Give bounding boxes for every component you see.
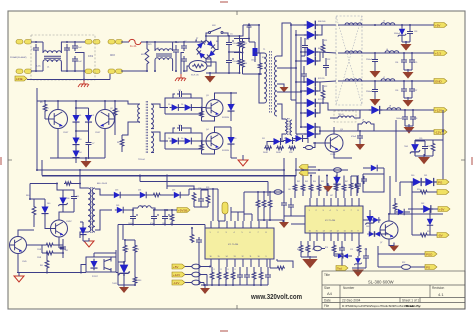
svg-text:F12C20: F12C20 xyxy=(318,99,324,101)
diode DB2 to Q30 xyxy=(363,217,381,223)
svg-text:C7: C7 xyxy=(92,143,94,145)
wire fuse to top node xyxy=(141,41,196,43)
svg-text:L7: L7 xyxy=(383,77,385,79)
wire sec bus1 xyxy=(291,23,296,100)
resistor R24 xyxy=(148,193,161,197)
wire opto right xyxy=(116,250,118,273)
capacitor CY1 xyxy=(72,43,78,51)
wire beads drops xyxy=(204,275,207,287)
wire T2 to upper diodes xyxy=(154,104,168,108)
capacitor CC3 xyxy=(363,248,369,268)
wire bus B xyxy=(42,158,296,176)
svg-text:220VAC(50-60HZ): 220VAC(50-60HZ) xyxy=(10,56,27,59)
svg-text:GND: GND xyxy=(435,79,443,83)
wire row pson2 xyxy=(378,254,425,267)
svg-text:D:\PS02\GproJVPS02\GproJ79o3cI: D:\PS02\GproJVPS02\GproJ79o3cI\D3ProtSL3… xyxy=(342,304,415,308)
capacitor CY2 xyxy=(72,41,78,72)
svg-text:R62: R62 xyxy=(297,181,300,183)
text CX1 label xyxy=(88,54,94,58)
inductor L1 common-mode choke xyxy=(43,42,61,71)
wire out row3 xyxy=(0,0,1,1)
ground brown GO8 xyxy=(415,154,433,164)
svg-text:TL431: TL431 xyxy=(112,283,117,285)
svg-text:F12C20: F12C20 xyxy=(318,78,324,80)
resistor RS1 xyxy=(321,39,325,58)
svg-text:R46: R46 xyxy=(170,223,173,225)
svg-text:R73: R73 xyxy=(312,249,315,251)
resistor R12 xyxy=(237,40,244,54)
ground brown GO1 xyxy=(401,41,412,51)
wire Q2 bottom xyxy=(104,129,106,159)
svg-text:R50: R50 xyxy=(417,189,420,191)
svg-text:13: 13 xyxy=(234,256,236,258)
text diode row labels xyxy=(263,152,294,154)
rectifier dashed box xyxy=(336,16,362,105)
svg-text:Q7: Q7 xyxy=(380,242,382,244)
transistor Q2 half-bridge xyxy=(96,110,115,129)
text S2055 labels xyxy=(222,117,229,152)
svg-text:D13: D13 xyxy=(297,138,300,140)
wire T4 top xyxy=(79,169,88,188)
diode D5 xyxy=(170,104,181,111)
resistor R5 xyxy=(40,100,47,112)
svg-text:C42: C42 xyxy=(65,250,68,252)
svg-text:C35: C35 xyxy=(414,62,417,64)
diode DS4 rectifier xyxy=(295,52,320,65)
svg-text:+5V: +5V xyxy=(439,207,444,211)
transformer T2 sec lower xyxy=(151,132,154,153)
transistor Q3 drive xyxy=(206,100,223,117)
jumper beads xyxy=(185,264,210,285)
diode DS6 rectifier xyxy=(300,82,320,95)
wire Q4 emitter xyxy=(202,150,215,155)
svg-text:D9: D9 xyxy=(181,138,183,140)
svg-text:D8: D8 xyxy=(168,138,170,140)
svg-text:2200uF: 2200uF xyxy=(366,91,373,93)
capacitor C5 bulk xyxy=(226,36,239,48)
wire caps mid link xyxy=(228,51,241,53)
svg-text:D5: D5 xyxy=(168,104,170,106)
diode D11 xyxy=(267,138,283,146)
wire diode pair top xyxy=(75,100,89,113)
wire T1 pri top xyxy=(258,24,264,53)
svg-text:S2055N: S2055N xyxy=(222,150,229,152)
svg-text:C33: C33 xyxy=(414,31,417,33)
text output cap labels xyxy=(351,31,430,148)
resistor R30 xyxy=(133,258,137,285)
resistor R16 xyxy=(288,146,296,150)
wire line rail xyxy=(27,74,110,81)
resistor R23 xyxy=(42,252,49,274)
svg-text:L9: L9 xyxy=(362,120,364,122)
wire CN2 to fuse xyxy=(121,41,129,43)
svg-text:D12: D12 xyxy=(284,138,287,140)
svg-text:SCK 05: SCK 05 xyxy=(191,75,199,77)
svg-text:C28: C28 xyxy=(198,188,201,190)
wire T3 conn xyxy=(282,116,285,141)
diode D12 xyxy=(282,137,295,144)
inductor LF3 xyxy=(381,79,395,81)
wire IC1 left pin xyxy=(209,266,211,268)
IC U2 pins bottom xyxy=(211,259,267,267)
svg-text:D25: D25 xyxy=(172,190,175,192)
varistor RV1 xyxy=(141,41,149,72)
resistor RA4 xyxy=(231,267,235,285)
wire HB box bottom xyxy=(50,157,105,159)
wire bus C xyxy=(139,175,268,196)
ground brown G31 xyxy=(118,271,136,293)
svg-text:IC2 TL494: IC2 TL494 xyxy=(325,220,336,222)
resistor R3 bleed xyxy=(238,36,242,52)
inductor LO3 xyxy=(338,79,434,81)
text output labels xyxy=(362,21,391,122)
title block frame xyxy=(322,271,465,309)
zener ZDB xyxy=(365,210,374,231)
svg-text:C13: C13 xyxy=(178,125,181,127)
bridge rectifier B1 xyxy=(196,39,220,60)
diode D20 xyxy=(30,199,49,221)
capacitor CO6 xyxy=(402,114,416,126)
svg-text:R41: R41 xyxy=(40,265,43,267)
diode D2 xyxy=(85,113,92,124)
wire top rail xyxy=(243,24,259,26)
text CY labels xyxy=(78,47,82,63)
svg-text:File: File xyxy=(324,304,329,308)
diode DS1 rectifier xyxy=(290,21,322,30)
text misc labels 5 xyxy=(244,43,266,65)
svg-text:470uF: 470uF xyxy=(351,136,357,138)
resistor RC4 xyxy=(270,259,285,270)
inductor LF4 xyxy=(387,108,401,110)
diode DB1 xyxy=(333,173,340,191)
svg-text:D26: D26 xyxy=(116,205,119,207)
net tag P1 xyxy=(437,180,449,185)
capacitor C8 electrolytic xyxy=(251,42,258,62)
jumper bead P xyxy=(400,265,412,270)
wire standby feed xyxy=(30,184,57,200)
resistor RD1 xyxy=(256,192,260,221)
diode DS8 rectifier xyxy=(300,103,320,117)
resistor RB9 xyxy=(307,168,348,172)
capacitor C7 xyxy=(86,139,92,158)
svg-text:15: 15 xyxy=(218,256,220,258)
zener ZD1 xyxy=(398,27,406,42)
ground brown G41 xyxy=(279,212,289,228)
wire HV rail down xyxy=(36,88,38,170)
svg-text:C31: C31 xyxy=(306,39,309,41)
svg-text:1000u: 1000u xyxy=(128,223,133,225)
svg-text:L8: L8 xyxy=(389,106,391,108)
wire cluster rail xyxy=(244,191,284,221)
svg-text:D3: D3 xyxy=(79,139,81,141)
svg-text:C51: C51 xyxy=(333,249,336,251)
bus wire C xyxy=(139,175,268,197)
svg-text:C12: C12 xyxy=(178,90,181,92)
svg-text:4K7: 4K7 xyxy=(330,195,333,197)
text misc labels 1 xyxy=(31,49,69,68)
thermistor TH1 xyxy=(184,59,211,77)
wire HB box right xyxy=(114,101,116,135)
resistor RO1 xyxy=(431,140,435,156)
wire sec bus2 xyxy=(277,30,297,134)
zener ZD2 xyxy=(410,140,443,156)
svg-text:Revision: Revision xyxy=(432,286,444,290)
text CN2 label xyxy=(110,55,115,57)
svg-text:3: 3 xyxy=(226,232,227,234)
capacitor C26 xyxy=(151,209,159,225)
svg-text:C38: C38 xyxy=(414,118,417,120)
inductor LO2 xyxy=(338,51,434,53)
ground red open G50 xyxy=(238,155,248,166)
svg-text:L10: L10 xyxy=(140,206,143,208)
capacitor CB3 xyxy=(361,176,368,184)
wire opto left xyxy=(80,253,116,274)
diode D6 xyxy=(183,104,194,111)
capacitor CC1 xyxy=(339,241,345,254)
optocoupler U3 xyxy=(86,257,116,278)
resistor RB6 xyxy=(334,176,338,199)
svg-text:C34: C34 xyxy=(395,62,398,64)
wire comparator drop xyxy=(198,248,200,285)
resistor R8 base drive xyxy=(117,135,124,152)
svg-text:+3.3: +3.3 xyxy=(435,51,441,55)
wire DS out2 xyxy=(320,52,336,53)
capacitor C28 xyxy=(198,190,204,207)
svg-text:R51: R51 xyxy=(427,231,430,233)
text 5vsb labels xyxy=(115,187,209,225)
wire row2 caps xyxy=(403,52,413,57)
ground brown GO4 xyxy=(370,96,381,106)
svg-text:R28: R28 xyxy=(206,187,209,189)
capacitor CO8 xyxy=(415,141,428,156)
net +5V tag xyxy=(172,264,185,269)
capacitor C20 xyxy=(63,190,77,212)
svg-text:470u: 470u xyxy=(150,223,154,225)
ground brown GO7 xyxy=(355,141,365,150)
resistor RB5 xyxy=(325,176,329,197)
svg-text:1: 1 xyxy=(210,232,211,234)
capacitor CC2 xyxy=(357,241,361,256)
title block text xyxy=(324,273,444,308)
svg-text:CX1: CX1 xyxy=(88,54,94,58)
svg-text:L5: L5 xyxy=(383,21,385,23)
ground brown G43 xyxy=(352,267,366,277)
capacitor CB1 xyxy=(281,196,287,212)
wire L bottom xyxy=(31,70,43,72)
capacitor CO5 xyxy=(401,86,415,98)
wire row1 caps xyxy=(401,24,411,28)
wire out row1 xyxy=(0,0,1,1)
diode pair DB4 xyxy=(367,231,389,237)
capacitor CY3 xyxy=(181,43,187,51)
resistor R22a xyxy=(33,243,63,247)
wire L top xyxy=(31,41,43,43)
IC U1 pins bottom xyxy=(310,233,359,241)
svg-text:R12: R12 xyxy=(244,43,247,45)
text standby labels xyxy=(26,195,141,285)
ground red open G20 xyxy=(83,238,94,247)
wire rp2 drop xyxy=(411,192,413,235)
capacitor CO3 xyxy=(401,57,415,70)
resistor RC3 xyxy=(314,241,326,251)
resistor RD3 xyxy=(268,192,272,221)
resistor R6 xyxy=(113,107,119,119)
svg-text:D40: D40 xyxy=(47,203,50,205)
svg-text:+12V: +12V xyxy=(435,108,442,112)
svg-text:C5027: C5027 xyxy=(95,132,100,134)
capacitor CX top-left xyxy=(33,41,39,72)
wire diode chain xyxy=(75,124,89,163)
svg-text:+5V: +5V xyxy=(173,265,178,269)
resistor R29 xyxy=(190,227,194,243)
text misc labels 3 xyxy=(79,115,94,154)
svg-text:4.1: 4.1 xyxy=(438,292,444,297)
svg-text:R52: R52 xyxy=(402,262,405,264)
svg-text:22-Dec-2004: 22-Dec-2004 xyxy=(342,299,361,303)
svg-text:D11: D11 xyxy=(262,138,265,140)
svg-text:100uF: 100uF xyxy=(251,60,256,62)
ground brown G30 xyxy=(200,284,210,294)
connector +5V tag xyxy=(434,23,447,28)
svg-text:7905: 7905 xyxy=(404,146,408,148)
IC U1 pin numbers xyxy=(309,210,360,233)
diode DO4 xyxy=(369,106,383,114)
net label LINE tag xyxy=(15,76,27,81)
wire ps-on xyxy=(218,198,225,221)
svg-text:+12V: +12V xyxy=(173,273,180,277)
capacitor C29 xyxy=(196,237,202,248)
svg-text:EEL-19-08: EEL-19-08 xyxy=(97,183,108,185)
diode D8 xyxy=(170,138,181,145)
svg-text:C41: C41 xyxy=(76,196,79,198)
svg-text:MOV: MOV xyxy=(141,54,147,56)
svg-text:R40: R40 xyxy=(26,195,29,197)
svg-text:4: 4 xyxy=(234,232,235,234)
IC U2 LM339 xyxy=(205,228,274,259)
diode D22 snubber xyxy=(79,222,86,241)
wire top ac node xyxy=(196,35,207,42)
wire ic1 top stubs xyxy=(244,214,252,221)
svg-text:D23: D23 xyxy=(115,190,118,192)
svg-text:D30: D30 xyxy=(411,175,414,177)
wire out row5 xyxy=(355,130,434,132)
diode D23 xyxy=(112,192,122,198)
capacitor CO1 xyxy=(402,28,413,42)
wire q21 emitter net xyxy=(59,243,64,249)
text Q labels xyxy=(46,108,114,134)
svg-text:R67: R67 xyxy=(345,181,348,183)
svg-text:TR1-05: TR1-05 xyxy=(338,114,344,116)
wire DS out5 xyxy=(319,130,355,132)
connector +12V tag xyxy=(434,108,447,113)
diode D9 xyxy=(183,138,194,145)
ground earth GND2 xyxy=(175,74,186,81)
inductor LF2 xyxy=(385,51,399,53)
wire Q3 collector xyxy=(215,93,238,100)
wire T4 pri bot xyxy=(80,232,88,238)
diode DP3 xyxy=(408,205,438,213)
wire T4 sec bot xyxy=(95,210,112,230)
resistor RB11 xyxy=(351,176,359,196)
svg-text:LINE: LINE xyxy=(16,77,23,81)
wire plus rail right xyxy=(239,25,244,37)
svg-text:16: 16 xyxy=(210,256,212,258)
ground brown GO3 xyxy=(403,69,414,79)
svg-text:R31: R31 xyxy=(324,40,327,42)
diode DS3 rectifier xyxy=(300,48,320,57)
capacitor C22 xyxy=(60,239,66,258)
wire port down xyxy=(234,30,249,40)
net tag P2 xyxy=(437,190,449,195)
resistor R14 xyxy=(264,146,272,150)
diode D7 xyxy=(227,92,234,121)
svg-text:D4: D4 xyxy=(79,152,81,154)
resistor RB1 xyxy=(293,176,297,199)
wire bus drop1 xyxy=(166,175,168,190)
transformer T3 xyxy=(285,118,292,135)
svg-text:C945: C945 xyxy=(22,261,27,263)
resistor R31a xyxy=(123,240,127,262)
capacitor CO2 xyxy=(372,52,378,70)
IC U1 pins top xyxy=(310,198,359,206)
resistor R9 xyxy=(200,107,204,122)
wire T2 primary bottom xyxy=(122,122,137,135)
svg-text:R5: R5 xyxy=(40,102,42,104)
resistor RA1 xyxy=(210,267,214,285)
ground brown G40 xyxy=(323,183,333,192)
wire CN2 bottom xyxy=(121,70,147,72)
inductor LF5 xyxy=(355,122,374,131)
text IC1 pin numbers xyxy=(210,232,267,258)
resistor RB3 xyxy=(309,176,313,199)
svg-text:D1: D1 xyxy=(79,115,81,117)
text rb row labels xyxy=(288,181,348,197)
switch SW1 xyxy=(206,25,228,36)
svg-text:10: 10 xyxy=(258,256,260,258)
resistor R13 xyxy=(234,49,244,74)
ground brown G4 xyxy=(76,157,92,168)
net -12Vs tag xyxy=(172,280,185,285)
capacitor CB4 xyxy=(355,175,361,193)
wire cc rail xyxy=(334,253,343,255)
wire upper loop xyxy=(165,98,202,114)
svg-text:-5V: -5V xyxy=(438,233,443,237)
connector CN1 pads xyxy=(16,40,32,74)
capacitor C25 xyxy=(130,209,138,225)
svg-text:D7: D7 xyxy=(233,104,235,106)
svg-text:C45: C45 xyxy=(162,223,165,225)
resistor RP2 xyxy=(412,233,437,237)
wire Q2 base xyxy=(114,118,117,120)
svg-text:R75: R75 xyxy=(341,247,344,249)
inductor LO1 xyxy=(338,23,434,26)
svg-text:S2055N: S2055N xyxy=(222,117,229,119)
resistor R20 xyxy=(29,198,36,227)
text Q5 label xyxy=(340,129,344,131)
diode D24 xyxy=(122,192,148,198)
svg-text:12: 12 xyxy=(242,256,244,258)
svg-text:Title: Title xyxy=(324,273,330,277)
wire pg row xyxy=(390,120,425,214)
connector +3.3V tag xyxy=(434,51,447,56)
wire Q1 base xyxy=(45,112,49,119)
text misc labels 6 xyxy=(306,21,330,101)
wire caps top xyxy=(228,35,240,37)
diode D1 xyxy=(72,113,79,124)
svg-text:R43: R43 xyxy=(138,280,141,282)
wire Q2 top xyxy=(104,100,106,110)
wire lower loop xyxy=(165,133,202,149)
